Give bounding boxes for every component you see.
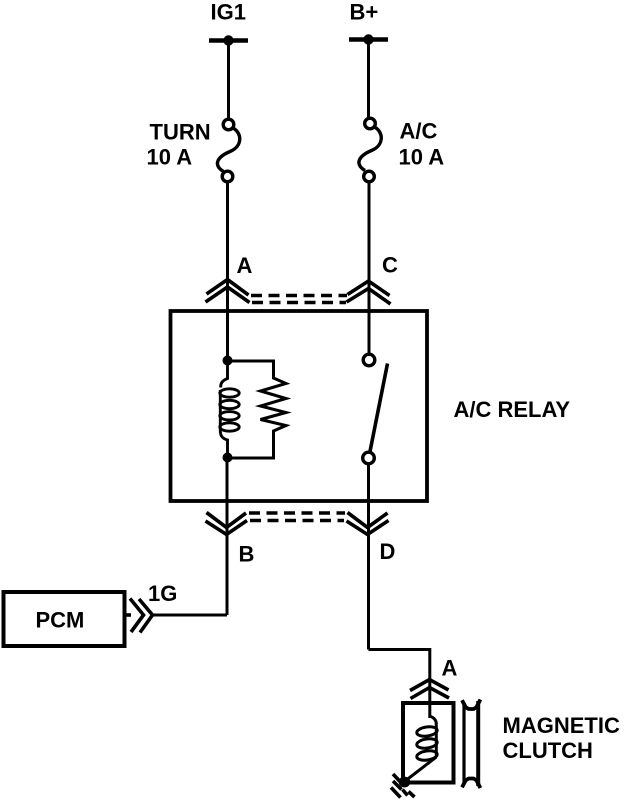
PCM box [4,592,125,646]
pulley [462,700,480,789]
relay resistor [228,361,287,458]
connector D [347,513,389,535]
svg-text:MAGNETIC: MAGNETIC [503,713,620,738]
wire fuse TURN to relay [226,182,229,356]
magnetic clutch box [403,703,454,783]
svg-text:PCM: PCM [36,608,85,633]
svg-text:D: D [380,539,396,564]
svg-text:CLUTCH: CLUTCH [503,738,593,763]
svg-text:B+: B+ [350,0,379,25]
connector C [347,281,391,304]
wire relay coil to connector B [226,462,229,615]
connector A [206,280,250,303]
svg-text:TURN: TURN [150,120,211,145]
connector A clutch [410,680,449,699]
dashed harness bottom [249,513,345,521]
power terminal B+ [349,34,388,44]
wire D to clutch corner [369,650,430,681]
power terminal IG1 [209,35,248,45]
svg-text:IG1: IG1 [211,0,246,25]
svg-text:A/C: A/C [400,119,438,144]
relay switch [363,354,388,464]
wire B+ to fuse [367,40,370,119]
svg-text:A/C RELAY: A/C RELAY [454,397,571,422]
svg-text:A: A [237,253,253,278]
wire relay switch to corner [367,464,370,650]
junction node bottom [223,453,233,463]
ground [391,774,415,798]
fuse TURN 10A [217,119,239,182]
magnetic clutch coil [405,716,438,782]
svg-text:10 A: 10 A [399,145,445,170]
svg-text:1G: 1G [148,581,177,606]
wire connector to clutch coil [428,680,431,718]
connector B [206,513,248,535]
fuse A/C 10A [359,118,381,182]
svg-text:B: B [239,542,255,567]
wire PCM to B [153,614,228,617]
relay box A/C RELAY [171,311,428,501]
junction node top [223,356,233,366]
wire IG1 to fuse [227,41,230,120]
svg-text:A: A [442,656,458,681]
connector 1G [125,599,153,633]
relay coil [220,361,239,458]
svg-text:10 A: 10 A [147,145,193,170]
wire fuse A/C to relay switch [368,182,371,354]
svg-text:C: C [382,253,398,278]
dashed harness top [251,296,347,303]
